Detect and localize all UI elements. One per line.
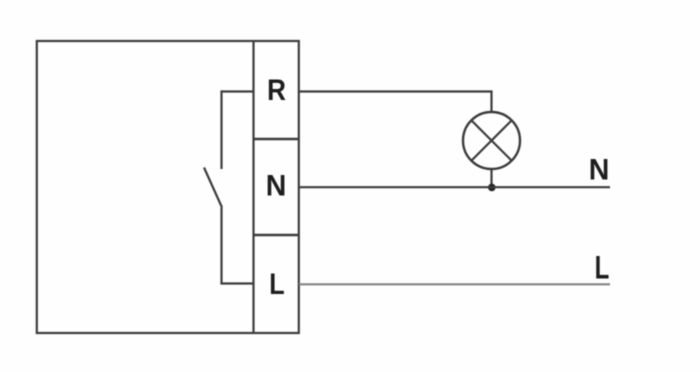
- lamp E1 (circle with cross): [463, 112, 520, 169]
- wire R terminal to lamp (horizontal): [299, 90, 492, 92]
- terminal divider R/N: [254, 138, 299, 140]
- svg-text:L: L: [595, 249, 610, 285]
- terminal strip left edge: [252, 41, 254, 333]
- net label N: [589, 154, 610, 187]
- terminal label L: [269, 267, 284, 301]
- switch S1 blade (open): [204, 168, 222, 208]
- svg-text:N: N: [589, 154, 610, 187]
- wire lamp bottom drop (vertical): [490, 169, 492, 187]
- terminal label R: [267, 73, 286, 106]
- wire L line (horizontal, gray): [299, 283, 610, 285]
- wire N line (horizontal): [299, 186, 610, 188]
- terminal label N: [266, 170, 287, 203]
- net label L: [595, 249, 610, 285]
- terminal divider N/L: [254, 234, 299, 236]
- wire switch lower (vertical): [220, 208, 222, 284]
- wire switch upper (vertical): [220, 90, 222, 169]
- svg-text:N: N: [266, 170, 287, 203]
- svg-text:L: L: [269, 267, 284, 301]
- junction dot on N line: [488, 184, 496, 192]
- device enclosure box: [37, 41, 299, 333]
- wire R terminal to switch (horizontal): [222, 90, 254, 92]
- svg-text:R: R: [267, 73, 286, 106]
- wire switch to L terminal (horizontal): [220, 282, 253, 284]
- wire lamp top drop (vertical): [490, 90, 492, 112]
